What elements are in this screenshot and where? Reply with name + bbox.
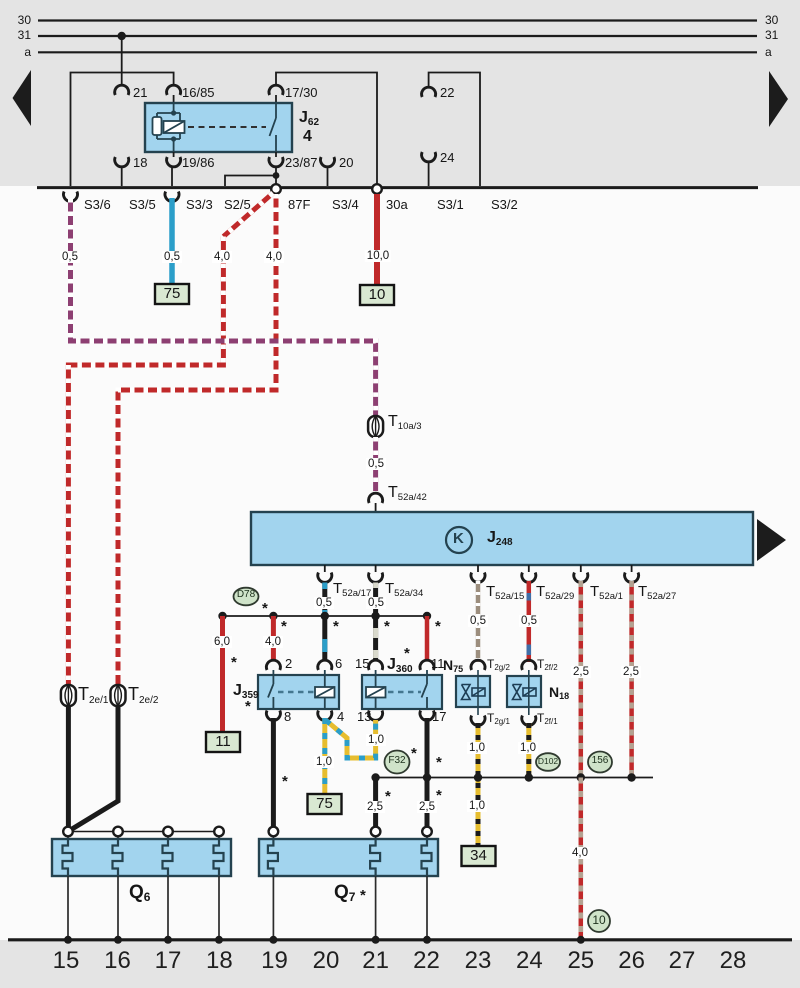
- Q6 pin 2 stem: [117, 836, 119, 840]
- wire 30a red: [374, 194, 380, 285]
- N18 pin line: [528, 670, 530, 715]
- splice dot C: [321, 612, 329, 620]
- wire S3/6 to T10a/3: [71, 198, 376, 416]
- wire 22 to S3/2: [429, 73, 480, 187]
- connector T52a/29: [522, 573, 536, 583]
- J360 coil: [366, 670, 386, 710]
- splice designation D102: [536, 753, 560, 771]
- splice2 dot A: [371, 773, 379, 781]
- bus line 30: [38, 19, 757, 21]
- wire S3/3 blue: [169, 198, 175, 284]
- wire T52a/34 upper: [373, 581, 378, 614]
- ground dot 18: [215, 936, 223, 944]
- Q6 heater element 3: [163, 839, 173, 877]
- Q7 heater element 1: [268, 839, 278, 877]
- connector T2f/2: [522, 660, 536, 670]
- wire 17/30 stem: [275, 95, 277, 103]
- stem 23/87: [275, 152, 277, 157]
- stem T52a/29: [528, 565, 530, 572]
- Q6 pin 2 terminal: [113, 827, 123, 837]
- connector J360 pin15: [369, 660, 383, 670]
- Q6 pin 4 stem: [218, 836, 220, 840]
- jumper wire: [326, 720, 376, 758]
- J360 switch: [422, 670, 428, 710]
- J359 dashes: [278, 691, 315, 693]
- top power-rail band background: [0, 0, 800, 186]
- Q6 tie line: [68, 831, 219, 833]
- fuse indicator 11: [206, 732, 240, 752]
- relay J359 box: [258, 675, 339, 709]
- wire 20 to S3/4: [327, 168, 329, 186]
- N75 pin line: [477, 670, 479, 715]
- J248 right arrow: [757, 519, 786, 561]
- Q6 heater element 2: [113, 839, 123, 877]
- connector 18: [115, 157, 129, 167]
- bus line a: [38, 51, 757, 53]
- Q6 ground wire 2: [117, 876, 119, 938]
- valve N75 box: [456, 676, 490, 707]
- bottom ground-rail band background: [0, 940, 800, 988]
- connector T52a/15: [471, 573, 485, 583]
- wire 17/30 to 30a: [276, 73, 377, 186]
- glow plug group Q7 box: [259, 839, 438, 876]
- Q7 ground wire 3: [426, 876, 428, 938]
- splice dot E: [423, 612, 431, 620]
- Q6 ground wire 4: [218, 876, 220, 938]
- connector T10a/3: [368, 416, 383, 437]
- connector J360 pin11: [420, 660, 434, 670]
- ground designation 10: [588, 910, 610, 932]
- wire to pin11: [425, 616, 430, 661]
- J62 switch contact: [270, 103, 277, 152]
- wire S2/5 to T2e/1: [68, 237, 223, 687]
- wire T2g/1 to 34: [476, 723, 481, 846]
- connector J359 pin2: [266, 660, 280, 670]
- Q7 ground wire 1: [272, 876, 274, 938]
- connector J359 pin8: [266, 711, 280, 721]
- wire T52a/17 upper: [322, 581, 327, 614]
- terminal S3/3 connector: [165, 192, 179, 202]
- wire to pin15: [373, 616, 378, 661]
- wire pin17 to Q7: [425, 718, 430, 827]
- Q6 pin 3 stem: [167, 836, 169, 840]
- wire 24 to S3/1: [428, 163, 430, 186]
- Q6 pin 1 terminal: [63, 827, 73, 837]
- terminal 30a: [372, 184, 382, 194]
- splice dot D: [371, 612, 379, 620]
- splice2 dot C: [474, 773, 482, 781]
- J360 dashes: [388, 691, 421, 693]
- left direction arrow: [13, 70, 32, 126]
- J248 K symbol: [446, 527, 472, 553]
- Q6 ground wire 3: [167, 876, 169, 938]
- splice dot A: [218, 612, 226, 620]
- connector J360 pin17: [420, 711, 434, 721]
- ground dot 16: [114, 936, 122, 944]
- Q7 heater element 2: [370, 839, 380, 877]
- glow plug group Q6 box: [52, 839, 231, 876]
- splice2 dot B: [423, 773, 431, 781]
- Q7 pin 3 terminal: [422, 827, 432, 837]
- N75 valve symbol: [462, 685, 486, 700]
- connector T2e/1: [61, 685, 76, 706]
- splice dot B: [269, 612, 277, 620]
- splice designation 156: [588, 752, 612, 773]
- relay J62 box: [145, 103, 292, 152]
- wire 4,0: [271, 616, 276, 661]
- fuse indicator 75 (lower): [308, 794, 342, 814]
- wire T52a/27: [629, 581, 634, 778]
- connector T52a/42: [369, 493, 383, 503]
- terminal S3/6 connector: [64, 192, 78, 202]
- wire 16/85 stem: [173, 95, 175, 103]
- wire 87F to T2e/2: [118, 194, 276, 686]
- Q7 pin 2 stem: [375, 836, 377, 840]
- wire 18 to S3/5: [121, 168, 123, 186]
- wire T52a/15: [476, 581, 481, 662]
- connector 23/87: [269, 157, 283, 167]
- valve N18 box: [507, 676, 541, 707]
- ground dot 22: [423, 936, 431, 944]
- fuse indicator 10 (top): [360, 285, 394, 305]
- wire 6,0: [220, 616, 225, 732]
- Q7 pin 1 terminal: [269, 827, 279, 837]
- ground dot 21: [372, 936, 380, 944]
- connector T52a/34: [369, 573, 383, 583]
- wire 23/87 down: [275, 168, 277, 185]
- Q7 heater element 3: [422, 839, 432, 877]
- wire T2f/1: [526, 723, 531, 778]
- connector J359 pin6: [318, 660, 332, 670]
- engine control unit J248 box: [251, 512, 753, 565]
- connector 22: [422, 87, 436, 97]
- sensor designation F32: [385, 751, 410, 774]
- top terminal rail: [37, 186, 758, 189]
- ground dot 25: [577, 936, 585, 944]
- junction 23/87 branch: [273, 172, 280, 179]
- branch to S2/5: [225, 176, 276, 187]
- connector 17/30: [269, 85, 283, 95]
- wire pin8 to Q7: [271, 718, 276, 827]
- splice designation D78: [234, 588, 259, 606]
- J359 coil: [315, 670, 335, 710]
- connector T52a/17: [318, 573, 332, 583]
- bus line 31: [38, 35, 757, 37]
- wire T2e/1 to Q6: [66, 706, 71, 828]
- wire to terminal 25: [579, 778, 584, 939]
- stem T52a/27: [631, 565, 633, 572]
- J62 coil: [153, 103, 185, 152]
- connector 24: [422, 152, 436, 162]
- wire 19/86 to S3/3: [171, 168, 173, 186]
- ground dot 17: [164, 936, 172, 944]
- stem T52a/15: [477, 565, 479, 572]
- Q6 heater element 1: [63, 839, 73, 877]
- wire 21 drop: [121, 36, 123, 84]
- stem T52a/1: [580, 565, 582, 572]
- ground dot 19: [269, 936, 277, 944]
- connector J359 pin4: [318, 711, 332, 721]
- wire to pin6: [322, 616, 327, 661]
- J359 switch: [268, 670, 273, 710]
- connector J360 pin13: [369, 711, 383, 721]
- Q7 pin 3 stem: [426, 836, 428, 840]
- N18 valve symbol: [513, 685, 537, 700]
- splice2 dot F: [627, 773, 635, 781]
- connector 21: [115, 85, 129, 95]
- Q7 pin 2 terminal: [371, 827, 381, 837]
- bottom ground rail: [8, 938, 792, 941]
- connector 19/86: [167, 157, 181, 167]
- connector T2f/1: [522, 716, 536, 726]
- connector 20: [321, 157, 335, 167]
- wire S2/5 diagonal: [223, 193, 273, 237]
- wire T52a/29: [527, 581, 532, 662]
- Q6 heater element 4: [214, 839, 224, 877]
- Q6 pin 3 terminal: [163, 827, 173, 837]
- connector T2g/1: [471, 716, 485, 726]
- fuse indicator 34: [462, 846, 496, 866]
- connector T52a/27: [625, 573, 639, 583]
- Q6 pin 1 stem: [67, 836, 69, 840]
- wire splice to Q7: [373, 778, 378, 828]
- J62 dashed link: [188, 126, 266, 128]
- splice line: [223, 615, 428, 617]
- stem 19/86: [173, 152, 175, 157]
- ground dot 15: [64, 936, 72, 944]
- wire T10a/3 to T52a/42: [373, 437, 378, 492]
- wire T52a/1: [579, 581, 584, 778]
- stem T52a/17: [324, 565, 326, 572]
- wire pin4 to 75: [322, 718, 327, 794]
- splice2 dot D: [525, 773, 533, 781]
- stem T52a/34: [375, 565, 377, 572]
- Q6 ground wire 1: [67, 876, 69, 938]
- right direction arrow: [769, 71, 788, 127]
- splice line 2: [376, 777, 653, 779]
- Q7 ground wire 2: [375, 876, 377, 938]
- relay J360 box: [362, 675, 442, 709]
- Q6 pin 4 terminal: [214, 827, 224, 837]
- junction on line 31: [118, 32, 126, 40]
- wire 16/85 to S3/6: [71, 73, 174, 187]
- stem T52a/42: [375, 503, 377, 512]
- wire T2e/2 to Q6: [72, 706, 118, 829]
- connector T2g/2: [471, 660, 485, 670]
- connector T2e/2: [111, 685, 126, 706]
- connector 16/85: [167, 85, 181, 95]
- terminal 87F: [271, 184, 281, 194]
- Q7 pin 1 stem: [272, 836, 274, 840]
- connector T52a/1: [574, 573, 588, 583]
- splice2 dot E: [577, 773, 585, 781]
- fuse indicator 75 (top): [155, 284, 189, 304]
